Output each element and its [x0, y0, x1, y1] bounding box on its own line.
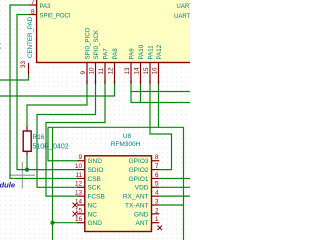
wire GPIO1 exits right [159, 177, 191, 179]
svg-text:PA3: PA3 [40, 4, 52, 10]
svg-text:GND: GND [134, 211, 149, 218]
sheet anchor cross [9, 162, 35, 189]
wire pin12 PA8 exits left [0, 80, 115, 96]
wire pin13 branch row exits right [131, 92, 191, 103]
svg-text:1: 1 [155, 216, 159, 223]
svg-text:RFM300H: RFM300H [111, 141, 141, 148]
svg-text:SDIO: SDIO [88, 167, 104, 174]
svg-text:15: 15 [143, 67, 150, 75]
pin 15 PA11 [143, 45, 155, 84]
module pin 3 TX-ANT [125, 198, 159, 209]
wire junction exits bottom [52, 223, 54, 240]
svg-text:2: 2 [155, 207, 159, 214]
module pin 1 ANT [136, 216, 160, 227]
svg-text:TX-ANT: TX-ANT [125, 202, 149, 209]
no-connect x pin14 [73, 203, 78, 208]
svg-text:3: 3 [155, 198, 159, 205]
wire R16 bottom to junction [26, 156, 28, 170]
MCU symbol body (clipped top/right) [37, 0, 237, 63]
wire pin14 PA10 joins row [140, 80, 142, 103]
wire down to GND row1 [48, 127, 77, 160]
svg-text:PA7: PA7 [103, 48, 110, 60]
svg-text:ANT: ANT [136, 220, 149, 227]
svg-text:16: 16 [75, 216, 83, 223]
module pin 4 RX_ANT [123, 190, 159, 201]
module pin 15 NC [75, 207, 97, 218]
svg-text:NC: NC [88, 202, 98, 209]
pin 16 PA12 [152, 44, 164, 84]
wire pin15 PA11 to GPIO2 [150, 80, 172, 170]
no-connect x pin15 [73, 211, 78, 216]
module pin 10 SDIO [75, 163, 103, 174]
U8 RFM300H module [85, 133, 152, 232]
module pin 14 NC [75, 198, 97, 209]
module pin 11 CSB [75, 172, 100, 183]
svg-text:8: 8 [31, 9, 35, 16]
svg-text:GND: GND [88, 220, 103, 227]
pin 10 SPI0_SCK [89, 29, 101, 84]
wire TX-ANT joins vertical [159, 204, 183, 206]
module pin 13 FCSB [75, 190, 105, 201]
wire junction to GND row8 [53, 222, 78, 224]
svg-text:SPI0_PICO: SPI0_PICO [85, 27, 92, 59]
svg-text:SPI0_SCK: SPI0_SCK [93, 29, 100, 59]
svg-text:UART0_RX: UART0_RX [174, 14, 190, 20]
svg-text:GPIO2: GPIO2 [129, 167, 149, 174]
junction SDIO [25, 168, 29, 172]
module pin 5 VDD [135, 181, 160, 192]
module pin 7 GPIO2 [129, 163, 160, 174]
junction GND [50, 221, 54, 225]
svg-text:R16: R16 [33, 134, 45, 141]
svg-text:dule: dule [0, 181, 16, 190]
wire RX_ANT exits right [159, 195, 191, 197]
svg-text:RX_ANT: RX_ANT [123, 194, 149, 201]
svg-text:14: 14 [134, 67, 141, 75]
pin 11 PA7 [98, 48, 110, 84]
svg-text:5: 5 [155, 181, 159, 188]
pin 9 SPI0_PICO [80, 27, 92, 84]
module pin 9 GND [77, 154, 102, 165]
svg-text:11: 11 [98, 67, 105, 74]
svg-text:6: 6 [155, 172, 159, 179]
svg-text:SCK: SCK [88, 185, 102, 192]
module pin 8 GPIO3 [129, 154, 160, 165]
svg-text:SPI0_POCI: SPI0_POCI [40, 14, 71, 20]
module pin 2 GND [134, 207, 159, 218]
pin 14 PA10 [134, 44, 146, 84]
svg-text:9: 9 [80, 71, 87, 75]
svg-text:13: 13 [124, 67, 131, 75]
wire pin9 SPI0_PICO to R16 [27, 80, 87, 126]
svg-text:FCSB: FCSB [88, 194, 105, 201]
wire pin8 SPI0_POCI to SDIO [17, 15, 77, 170]
svg-text:NC: NC [88, 211, 98, 218]
svg-text:10: 10 [89, 67, 96, 75]
svg-text:UART0_TX: UART0_TX [177, 4, 191, 10]
svg-text:12: 12 [108, 67, 115, 75]
svg-text:GND: GND [88, 158, 103, 165]
svg-text:9: 9 [78, 154, 82, 161]
pin 33 CENTER_PAD [20, 16, 34, 74]
svg-text:11: 11 [75, 172, 82, 179]
wire pin16 PA12 long row [48, 80, 159, 127]
svg-text:PA8: PA8 [112, 48, 119, 60]
svg-text:7: 7 [155, 163, 159, 170]
svg-text:8: 8 [155, 154, 159, 161]
pin 7 [30, 0, 37, 6]
svg-text:U8: U8 [123, 133, 132, 140]
svg-text:GPIO1: GPIO1 [129, 176, 149, 183]
wire GND branch down [52, 127, 54, 222]
svg-text:12: 12 [75, 181, 83, 188]
no-connect x pin1 ANT [158, 226, 163, 231]
wire pin13 PA9 exits right [131, 80, 191, 92]
wire pin10 SPI0_SCK to SCK [37, 80, 96, 187]
svg-text:CSB: CSB [88, 176, 101, 183]
wire pin7 PA3 to CSB [10, 5, 77, 178]
svg-text:16: 16 [152, 67, 159, 75]
svg-text:PA11: PA11 [148, 45, 155, 60]
svg-text:33: 33 [20, 61, 27, 69]
svg-text:GPIO3: GPIO3 [129, 158, 149, 165]
svg-text:X: X [0, 42, 1, 51]
svg-text:PA10: PA10 [138, 44, 145, 59]
svg-text:VDD: VDD [135, 185, 149, 192]
svg-text:PA12: PA12 [156, 44, 163, 59]
svg-text:4: 4 [155, 190, 159, 197]
wire row to right side down [159, 127, 184, 240]
wire pin11 PA7 to FCSB [46, 80, 105, 196]
svg-text:13: 13 [75, 190, 83, 197]
module pin 12 SCK [75, 181, 102, 192]
pin 8 [30, 9, 37, 16]
pin 12 PA8 [108, 48, 120, 84]
resistor R16 [23, 126, 69, 156]
wire VDD exits right [159, 186, 191, 188]
svg-text:PA9: PA9 [129, 48, 136, 60]
svg-text:510R_0402: 510R_0402 [33, 144, 69, 151]
module pin 6 GPIO1 [129, 172, 160, 183]
svg-text:CENTER_PAD: CENTER_PAD [27, 16, 34, 58]
svg-text:7: 7 [31, 0, 35, 6]
pin 13 PA9 [124, 48, 136, 84]
module pin 16 GND [75, 216, 102, 227]
wire pin33 CENTER_PAD exits left [0, 75, 29, 81]
svg-text:10: 10 [75, 163, 83, 170]
